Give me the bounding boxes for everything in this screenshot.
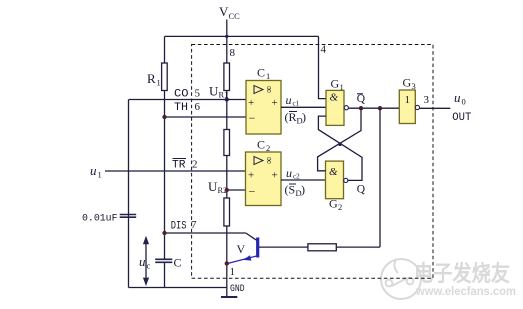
svg-text:U: U (209, 84, 219, 99)
svg-text:1: 1 (405, 94, 411, 106)
comparator C1 (246, 81, 281, 135)
svg-text:∞: ∞ (263, 157, 274, 164)
svg-text:u: u (90, 163, 97, 178)
svg-text:3: 3 (424, 94, 430, 106)
svg-text:+: + (248, 170, 254, 182)
node Vcc rail junction (225, 35, 228, 38)
wire collector diagonal from DIS (246, 233, 257, 241)
svg-text:TH: TH (174, 102, 188, 114)
node UR2 junction (225, 188, 229, 192)
svg-text:GND: GND (230, 284, 245, 295)
svg-text:TR: TR (172, 159, 186, 171)
svg-text:u: u (286, 93, 292, 107)
svg-text:1: 1 (266, 71, 270, 81)
wire TH line to C1 minus input (165, 116, 247, 118)
label G3 (403, 76, 416, 92)
svg-text:2: 2 (192, 159, 198, 171)
node TH junction (162, 115, 166, 119)
svg-text:V: V (219, 4, 229, 19)
svg-text:5: 5 (195, 88, 201, 100)
node Qbar junction 2 (378, 106, 382, 110)
svg-text:c: c (147, 261, 151, 271)
svg-text:www.elecfans.com: www.elecfans.com (415, 284, 516, 298)
node cross center (338, 142, 342, 146)
svg-text:2: 2 (266, 143, 270, 153)
wire Qbar output line from G1 to G3 (348, 107, 399, 109)
wire pin4 vertical into G1 top input (319, 36, 327, 98)
svg-text:c1: c1 (293, 100, 300, 108)
svg-text:1: 1 (230, 266, 236, 278)
svg-text:1: 1 (340, 82, 344, 92)
transistor base lead (259, 246, 308, 248)
ground symbol (221, 296, 237, 298)
wire base resistor to Qbar vertical (336, 246, 380, 248)
svg-text:&: & (329, 166, 338, 178)
resistor UR2 middle divider (224, 130, 230, 156)
svg-text:C: C (257, 66, 265, 80)
label C1 (257, 66, 270, 82)
node emitter junction (225, 261, 229, 265)
watermark text (414, 261, 516, 298)
label SD set (285, 183, 306, 199)
svg-text:u: u (286, 166, 292, 180)
svg-text:R: R (147, 71, 156, 86)
label uc2 (286, 166, 300, 181)
svg-text:+: + (272, 170, 278, 182)
svg-text:0: 0 (462, 97, 466, 107)
wire uc2 from C2 to G2 (281, 179, 326, 181)
label Vcc (219, 4, 240, 21)
wire DIS line (165, 232, 246, 234)
wire top rail (165, 35, 319, 37)
label UR2 (208, 179, 227, 195)
svg-text:8: 8 (230, 47, 236, 59)
label Qbar (357, 93, 366, 105)
wire CO line to C1 plus input (129, 99, 247, 101)
svg-text:&: & (330, 92, 339, 104)
svg-text:G: G (331, 77, 340, 91)
svg-text:CO: CO (174, 88, 189, 100)
svg-text:0.01uF: 0.01uF (82, 213, 118, 225)
svg-text:1: 1 (98, 170, 102, 180)
transistor V base bar (256, 238, 259, 258)
svg-text:c2: c2 (293, 173, 300, 181)
nand gate G1 (326, 90, 348, 125)
svg-text:C: C (174, 256, 182, 270)
uc double arrow (143, 236, 149, 286)
resistor base (horizontal) (308, 244, 336, 251)
label UR1 (209, 84, 228, 100)
svg-text:+: + (248, 97, 254, 109)
wire output from G3 (420, 107, 451, 109)
wire uc1 from C1 to G1 (281, 106, 326, 108)
wire divider vertical pin8-resistor bottom to middle resistor (226, 91, 228, 130)
svg-text:(R: (R (285, 110, 297, 124)
svg-text:Q: Q (357, 93, 366, 105)
svg-text:u: u (454, 90, 461, 105)
node Qbar junction 1 (359, 106, 363, 110)
svg-text:电子发烧友: 电子发烧友 (414, 261, 510, 286)
label TR with overline (172, 159, 186, 172)
capacitor C plates (155, 259, 172, 262)
svg-text:3: 3 (412, 81, 416, 91)
wire cross feedback Qbar to G2 input (318, 108, 361, 171)
inverter G3 (399, 90, 419, 124)
label R1 (147, 71, 161, 88)
svg-text:CC: CC (229, 11, 241, 21)
svg-text:V: V (237, 242, 246, 256)
label uc1 (286, 93, 300, 108)
svg-text:DIS: DIS (171, 220, 187, 232)
capacitor 0.01uF plates (120, 215, 137, 218)
watermark logo circle (381, 259, 421, 299)
wire CO vertical down through 0.01uF cap to ground rail (128, 100, 130, 288)
svg-text:Q: Q (357, 183, 366, 195)
svg-text:C: C (257, 138, 265, 152)
svg-text:): ) (302, 110, 306, 124)
resistor UR2 lower divider (224, 198, 230, 226)
svg-text:4: 4 (321, 44, 327, 56)
label uc with measurement arrow (139, 254, 151, 271)
label C2 (257, 138, 270, 154)
svg-text:−: − (249, 111, 256, 125)
svg-text:G: G (403, 76, 412, 90)
svg-text:−: − (249, 185, 256, 199)
resistor UR1 (pin8 divider top) (224, 63, 230, 91)
wire divider vertical middle to lower resistor (226, 156, 228, 199)
svg-text:OUT: OUT (452, 112, 471, 124)
svg-text:+: + (272, 97, 278, 109)
svg-text:U: U (208, 179, 218, 194)
node DIS junction (162, 231, 166, 235)
label RD reset (285, 110, 307, 126)
svg-text:2: 2 (338, 202, 342, 212)
comparator C2 (246, 152, 282, 206)
wire C2 minus input (227, 189, 246, 191)
svg-text:1: 1 (157, 78, 161, 88)
wire R1 bottom lead down to TH and DIS and cap C (164, 91, 166, 288)
wire divider bottom to emitter node and ground (226, 226, 228, 297)
wire ground rail (129, 287, 227, 289)
svg-text:u: u (139, 254, 146, 269)
label u0 (454, 90, 466, 107)
label G1 (331, 77, 344, 93)
wire cross feedback Q to G1 input (318, 116, 362, 180)
wire R1 top lead (164, 36, 166, 63)
wire u1 trigger line to C2 plus input (105, 170, 246, 172)
svg-text:G: G (329, 197, 338, 211)
transistor emitter with arrow (228, 255, 257, 263)
svg-text:): ) (301, 183, 305, 197)
resistor R1 (162, 63, 168, 91)
svg-text:(S: (S (285, 183, 296, 197)
label G2 (329, 197, 342, 213)
svg-text:6: 6 (195, 101, 201, 113)
wire Qbar down to base resistor (379, 108, 381, 247)
wire Vcc vertical to pin 8 (226, 20, 228, 64)
label u1 (90, 163, 102, 180)
IC dashed boundary box (192, 45, 433, 279)
node CO junction (225, 97, 229, 101)
svg-text:7: 7 (191, 219, 197, 231)
svg-text:∞: ∞ (263, 86, 274, 93)
nand gate G2 (326, 161, 348, 199)
